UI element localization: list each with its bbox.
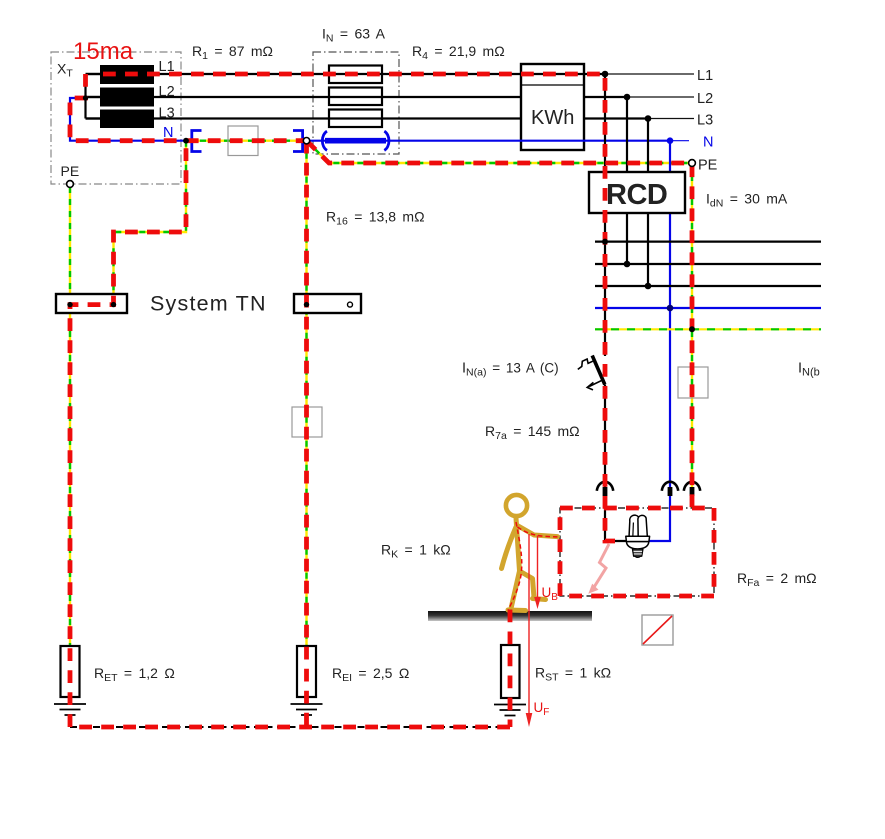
svg-text:RCD: RCD [606, 179, 667, 211]
value R4 = 21,9 mOhm [412, 43, 505, 62]
person touching appliance [502, 495, 558, 611]
wire L1 feeder stub to label [605, 73, 694, 75]
lamp (CFL) inside appliance [626, 515, 650, 557]
value RFa = 2 mOhm [737, 570, 817, 589]
label XT [57, 61, 73, 80]
svg-text:L2: L2 [697, 91, 713, 107]
svg-text:IN(a) = 13 A (C): IN(a) = 13 A (C) [462, 361, 559, 379]
svg-text:L2: L2 [159, 84, 175, 100]
junction: bus L1 [602, 239, 608, 245]
label System TN [150, 292, 267, 316]
label N (blue) [163, 125, 173, 141]
plug/socket connector on L1 [597, 482, 613, 496]
earth return conductor (bottom) [70, 726, 510, 728]
fault current path: transformer star point and PEN (red dashed) [70, 74, 306, 141]
value IN(b) cut at edge [798, 361, 820, 379]
junction: L3 to meter [645, 115, 652, 122]
fault current path: L1 from transformer to appliance (red dashed) [103, 74, 615, 541]
value R7a = 145 mOhm [485, 423, 580, 442]
fuse block enclosure [313, 52, 399, 154]
junction: right bar PE terminal [304, 302, 309, 307]
label L2 winding [159, 84, 175, 100]
wire L2 horizontal [86, 96, 628, 98]
svg-text:L3: L3 [159, 106, 175, 122]
wire N from star point (blue) [70, 98, 188, 141]
fault current path: PE to appliance (red dashed) [307, 141, 693, 508]
junction: earth bar left terminal [67, 302, 72, 307]
label PE right [698, 158, 718, 174]
junction: earth bar right terminal [111, 302, 116, 307]
transformer star-point wire [86, 74, 101, 119]
svg-text:XT: XT [57, 61, 73, 80]
fault voltage arrow UF [526, 534, 533, 727]
wire N after PEN split (blue) [302, 140, 670, 142]
fault current path: PEN split down to earth electrode REI (red dashed) [304, 141, 309, 727]
value R16 = 13,8 mOhm [326, 209, 425, 228]
node: PE (open) [689, 160, 696, 167]
bus bar L3 [595, 285, 821, 287]
svg-text:L1: L1 [697, 68, 713, 84]
junction: bus N (blue) [667, 305, 674, 312]
blue bracket ] on PEN end [293, 131, 303, 152]
value IN(a) = 13 A (C) [462, 361, 559, 379]
node: PEN split (open) [303, 138, 309, 144]
wire L2 feeder stub to label [627, 96, 694, 98]
value REI = 2,5 Ohm [332, 665, 409, 684]
earth electrode RET [54, 646, 86, 715]
wire N vertical drop to appliance (blue) [648, 141, 670, 541]
junction: bus L2 [624, 261, 631, 268]
junction: bus L3 [645, 283, 652, 290]
wire L3 feeder stub to label [648, 118, 694, 120]
junction: transformer star point [83, 95, 88, 100]
label PE at transformer [61, 163, 80, 179]
wire PE from transformer PE terminal down to main earth bar [69, 187, 71, 646]
transformer XT enclosure [51, 52, 181, 184]
label UB (red) [542, 585, 559, 603]
wire PEN drop with jog to main earth bar [114, 141, 187, 294]
svg-text:KWh: KWh [531, 107, 574, 129]
wire L3 vertical drop [647, 119, 649, 287]
label L3 right [697, 113, 713, 129]
junction: L2 to meter [624, 94, 631, 101]
svg-text:System TN: System TN [150, 292, 267, 316]
value RK = 1 kOhm [381, 542, 451, 561]
wire N feeder stub to label [670, 140, 689, 142]
svg-text:PE: PE [61, 163, 80, 179]
wire PEN section (green/yellow) [188, 139, 298, 141]
wire PE horizontal to installation [307, 141, 693, 163]
value RET = 1,2 Ohm [94, 665, 175, 684]
bus bar L2 [595, 263, 821, 265]
svg-text:R1 = 87 mΩ: R1 = 87 mΩ [192, 43, 273, 62]
fault current path: around appliance enclosure (red dashed) [560, 508, 714, 596]
junction: bus PE [689, 326, 695, 332]
fault arc lightning bolt [588, 544, 609, 594]
fault current path: earth return to RET and PEN jog (red dashed) [70, 141, 510, 727]
fuse F1 on L1 [329, 66, 382, 84]
earth electrode RST (standing surface) [494, 645, 526, 716]
transformer winding L2 [100, 88, 154, 107]
value R1 = 87 mOhm [192, 43, 273, 62]
earth electrode REI [291, 646, 323, 715]
svg-text:RST = 1 kΩ: RST = 1 kΩ [535, 665, 611, 684]
cable marker box on PEN [228, 126, 258, 156]
svg-text:UF: UF [534, 700, 550, 718]
svg-text:15ma: 15ma [73, 38, 134, 65]
bus bar L1 [595, 241, 821, 243]
svg-text:N: N [163, 125, 173, 141]
cable marker box on PE drop to REI [292, 407, 322, 437]
svg-text:L1: L1 [159, 59, 175, 75]
wire L1 vertical drop through RCD to appliance [605, 74, 637, 541]
svg-text:R16 = 13,8 mΩ: R16 = 13,8 mΩ [326, 209, 425, 228]
wire PE vertical drop to appliance [691, 163, 693, 508]
node: transformer PE terminal (open) [67, 181, 74, 188]
svg-text:IN(b: IN(b [798, 361, 820, 379]
svg-text:L3: L3 [697, 113, 713, 129]
label N right (blue) [703, 135, 713, 151]
cable marker box on PE drop to appliance [678, 367, 708, 398]
svg-text:R7a = 145 mΩ: R7a = 145 mΩ [485, 423, 580, 442]
annotation 15ma (red) [73, 38, 134, 65]
floor / standing surface [428, 611, 592, 621]
plug/socket connector on N [662, 482, 678, 496]
junction: L1 to meter [602, 71, 609, 78]
label UF (red) [534, 700, 550, 718]
transformer winding L1 [100, 65, 154, 84]
label L3 winding [159, 106, 175, 122]
junction: PEN tap node [183, 138, 189, 144]
wire L3 horizontal [86, 117, 649, 119]
junction: N (blue) [667, 137, 674, 144]
label L1 winding [159, 59, 175, 75]
value IdN = 30 mA [706, 191, 788, 210]
touch voltage arrow UB [534, 536, 541, 610]
svg-text:IN = 63 A: IN = 63 A [322, 26, 386, 45]
crossed-out symbol box [642, 615, 673, 645]
transformer winding L3 [100, 110, 154, 129]
wire L2 vertical drop [626, 97, 628, 264]
svg-text:RFa = 2 mΩ: RFa = 2 mΩ [737, 570, 817, 589]
label L1 right [697, 68, 713, 84]
wire PE down to earth electrode REI [305, 141, 307, 646]
plug/socket connector on PE [684, 482, 700, 496]
blue bracket [ on PEN start [192, 131, 202, 152]
body current path through person (thin red dashed) [508, 522, 560, 611]
wire L1 horizontal [86, 73, 606, 75]
svg-text:RK = 1 kΩ: RK = 1 kΩ [381, 542, 451, 561]
bus bar N (blue) [595, 307, 821, 309]
svg-text:IdN = 30 mA: IdN = 30 mA [706, 191, 788, 210]
appliance enclosure (faulty class I appliance) [560, 508, 714, 596]
value IN = 63 A [322, 26, 386, 45]
circuit breaker Ia (MCB) [578, 356, 605, 390]
fuse F2 on L2 [329, 88, 382, 106]
svg-text:N: N [703, 135, 713, 151]
RCD U3 [589, 172, 685, 213]
svg-text:REI = 2,5 Ω: REI = 2,5 Ω [332, 665, 409, 684]
fuse F3 on L3 [329, 110, 382, 128]
bus bar PE (green/yellow) [595, 328, 821, 330]
kWh meter U2 [521, 64, 584, 150]
fault current path: through standing surface electrode RST (red dashed) [508, 610, 513, 728]
earth terminal bar (right) [294, 294, 361, 313]
label L2 right [697, 91, 713, 107]
svg-text:PE: PE [698, 158, 718, 174]
node: right bar spare terminal (open) [348, 302, 353, 307]
cable run marker (===) on N [322, 131, 389, 150]
value RST = 1 kOhm [535, 665, 611, 684]
main earth terminal bar (left) [56, 294, 127, 313]
svg-text:RET = 1,2 Ω: RET = 1,2 Ω [94, 665, 175, 684]
svg-text:R4 = 21,9 mΩ: R4 = 21,9 mΩ [412, 43, 505, 62]
